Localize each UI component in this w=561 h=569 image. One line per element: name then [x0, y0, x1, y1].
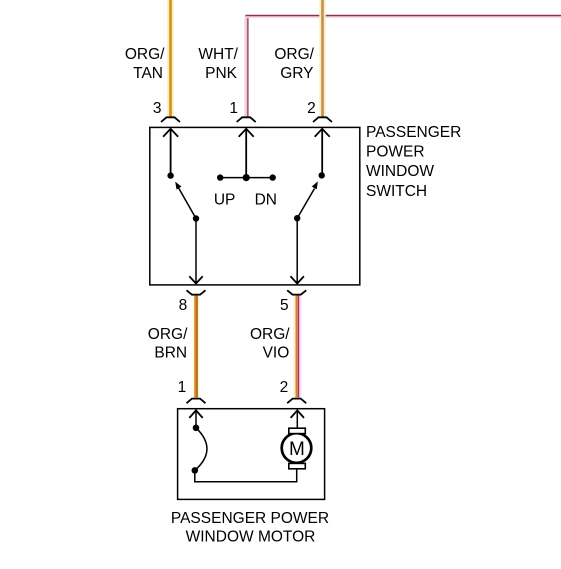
svg-text:WINDOW: WINDOW — [366, 163, 434, 180]
node dot center — [243, 174, 250, 181]
UP/DN contact bar — [220, 177, 273, 179]
svg-text:ORG/: ORG/ — [148, 326, 188, 343]
svg-text:ORG/: ORG/ — [274, 46, 314, 63]
svg-text:POWER: POWER — [366, 143, 425, 160]
node dot motor upper — [193, 425, 200, 432]
switch blade left (arrow toward upper contact) — [175, 182, 196, 219]
connector motor pin 1 — [187, 399, 206, 404]
svg-text:PASSENGER: PASSENGER — [366, 124, 461, 141]
connector pin 3 — [161, 117, 180, 122]
wire ORG/GRY (pin 2 feed) — [319, 0, 326, 117]
connector pin 8 — [187, 290, 206, 294]
up arrow pin 2 contact — [315, 129, 330, 176]
motor switch arc contact — [195, 428, 207, 471]
node dot right lower — [294, 215, 300, 221]
node dot left lower — [193, 215, 199, 221]
node dot right upper — [319, 172, 325, 178]
wire to pin 8 (down arrow) — [189, 219, 202, 284]
up arrow motor pin 1 — [189, 410, 202, 427]
svg-text:TAN: TAN — [133, 65, 163, 82]
svg-text:GRY: GRY — [280, 65, 313, 82]
connector motor pin 2 — [287, 399, 306, 404]
svg-text:PNK: PNK — [205, 65, 238, 82]
svg-text:PASSENGER POWER: PASSENGER POWER — [171, 510, 329, 527]
svg-text:3: 3 — [153, 100, 162, 117]
wire ORG/VIO — [295, 296, 300, 398]
svg-text:VIO: VIO — [263, 345, 290, 362]
passenger power window switch box — [150, 127, 360, 285]
node dot DN — [270, 174, 276, 180]
switch blade right (arrow toward upper contact) — [297, 181, 318, 218]
svg-text:ORG/: ORG/ — [250, 326, 290, 343]
node dot left upper — [167, 172, 173, 178]
svg-text:2: 2 — [307, 100, 316, 117]
svg-text:ORG/: ORG/ — [125, 46, 165, 63]
svg-text:1: 1 — [229, 100, 238, 117]
wire WHT/PNK (pin 1 feed, corner to right edge) — [245, 15, 561, 118]
connector pin 5 — [287, 290, 306, 294]
node dot UP — [217, 174, 223, 180]
svg-text:5: 5 — [280, 297, 289, 314]
wire motor internal — [195, 469, 297, 482]
connector pin 2 — [313, 117, 332, 122]
wire to pin 5 (down arrow) — [291, 218, 304, 283]
svg-text:UP: UP — [214, 192, 236, 209]
motor M1 — [282, 428, 312, 469]
node dot motor lower — [192, 467, 199, 474]
svg-text:2: 2 — [280, 379, 289, 396]
up arrow pin 3 contact — [163, 129, 178, 176]
svg-text:BRN: BRN — [154, 345, 187, 362]
up arrow pin 1 contact — [239, 129, 254, 178]
svg-text:1: 1 — [178, 379, 187, 396]
svg-text:M: M — [289, 439, 305, 460]
passenger power window motor box — [178, 409, 325, 500]
wire ORG/TAN (pin 3 feed) — [167, 0, 174, 117]
svg-text:WINDOW MOTOR: WINDOW MOTOR — [186, 529, 316, 546]
svg-text:DN: DN — [255, 192, 277, 209]
wire ORG/BRN — [195, 296, 197, 398]
label PASSENGER POWER WINDOW SWITCH — [366, 124, 461, 200]
connector pin 1 — [237, 117, 256, 122]
svg-text:SWITCH: SWITCH — [366, 183, 427, 200]
svg-text:WHT/: WHT/ — [198, 46, 238, 63]
up arrow motor pin 2 — [291, 410, 304, 428]
svg-text:8: 8 — [179, 297, 188, 314]
